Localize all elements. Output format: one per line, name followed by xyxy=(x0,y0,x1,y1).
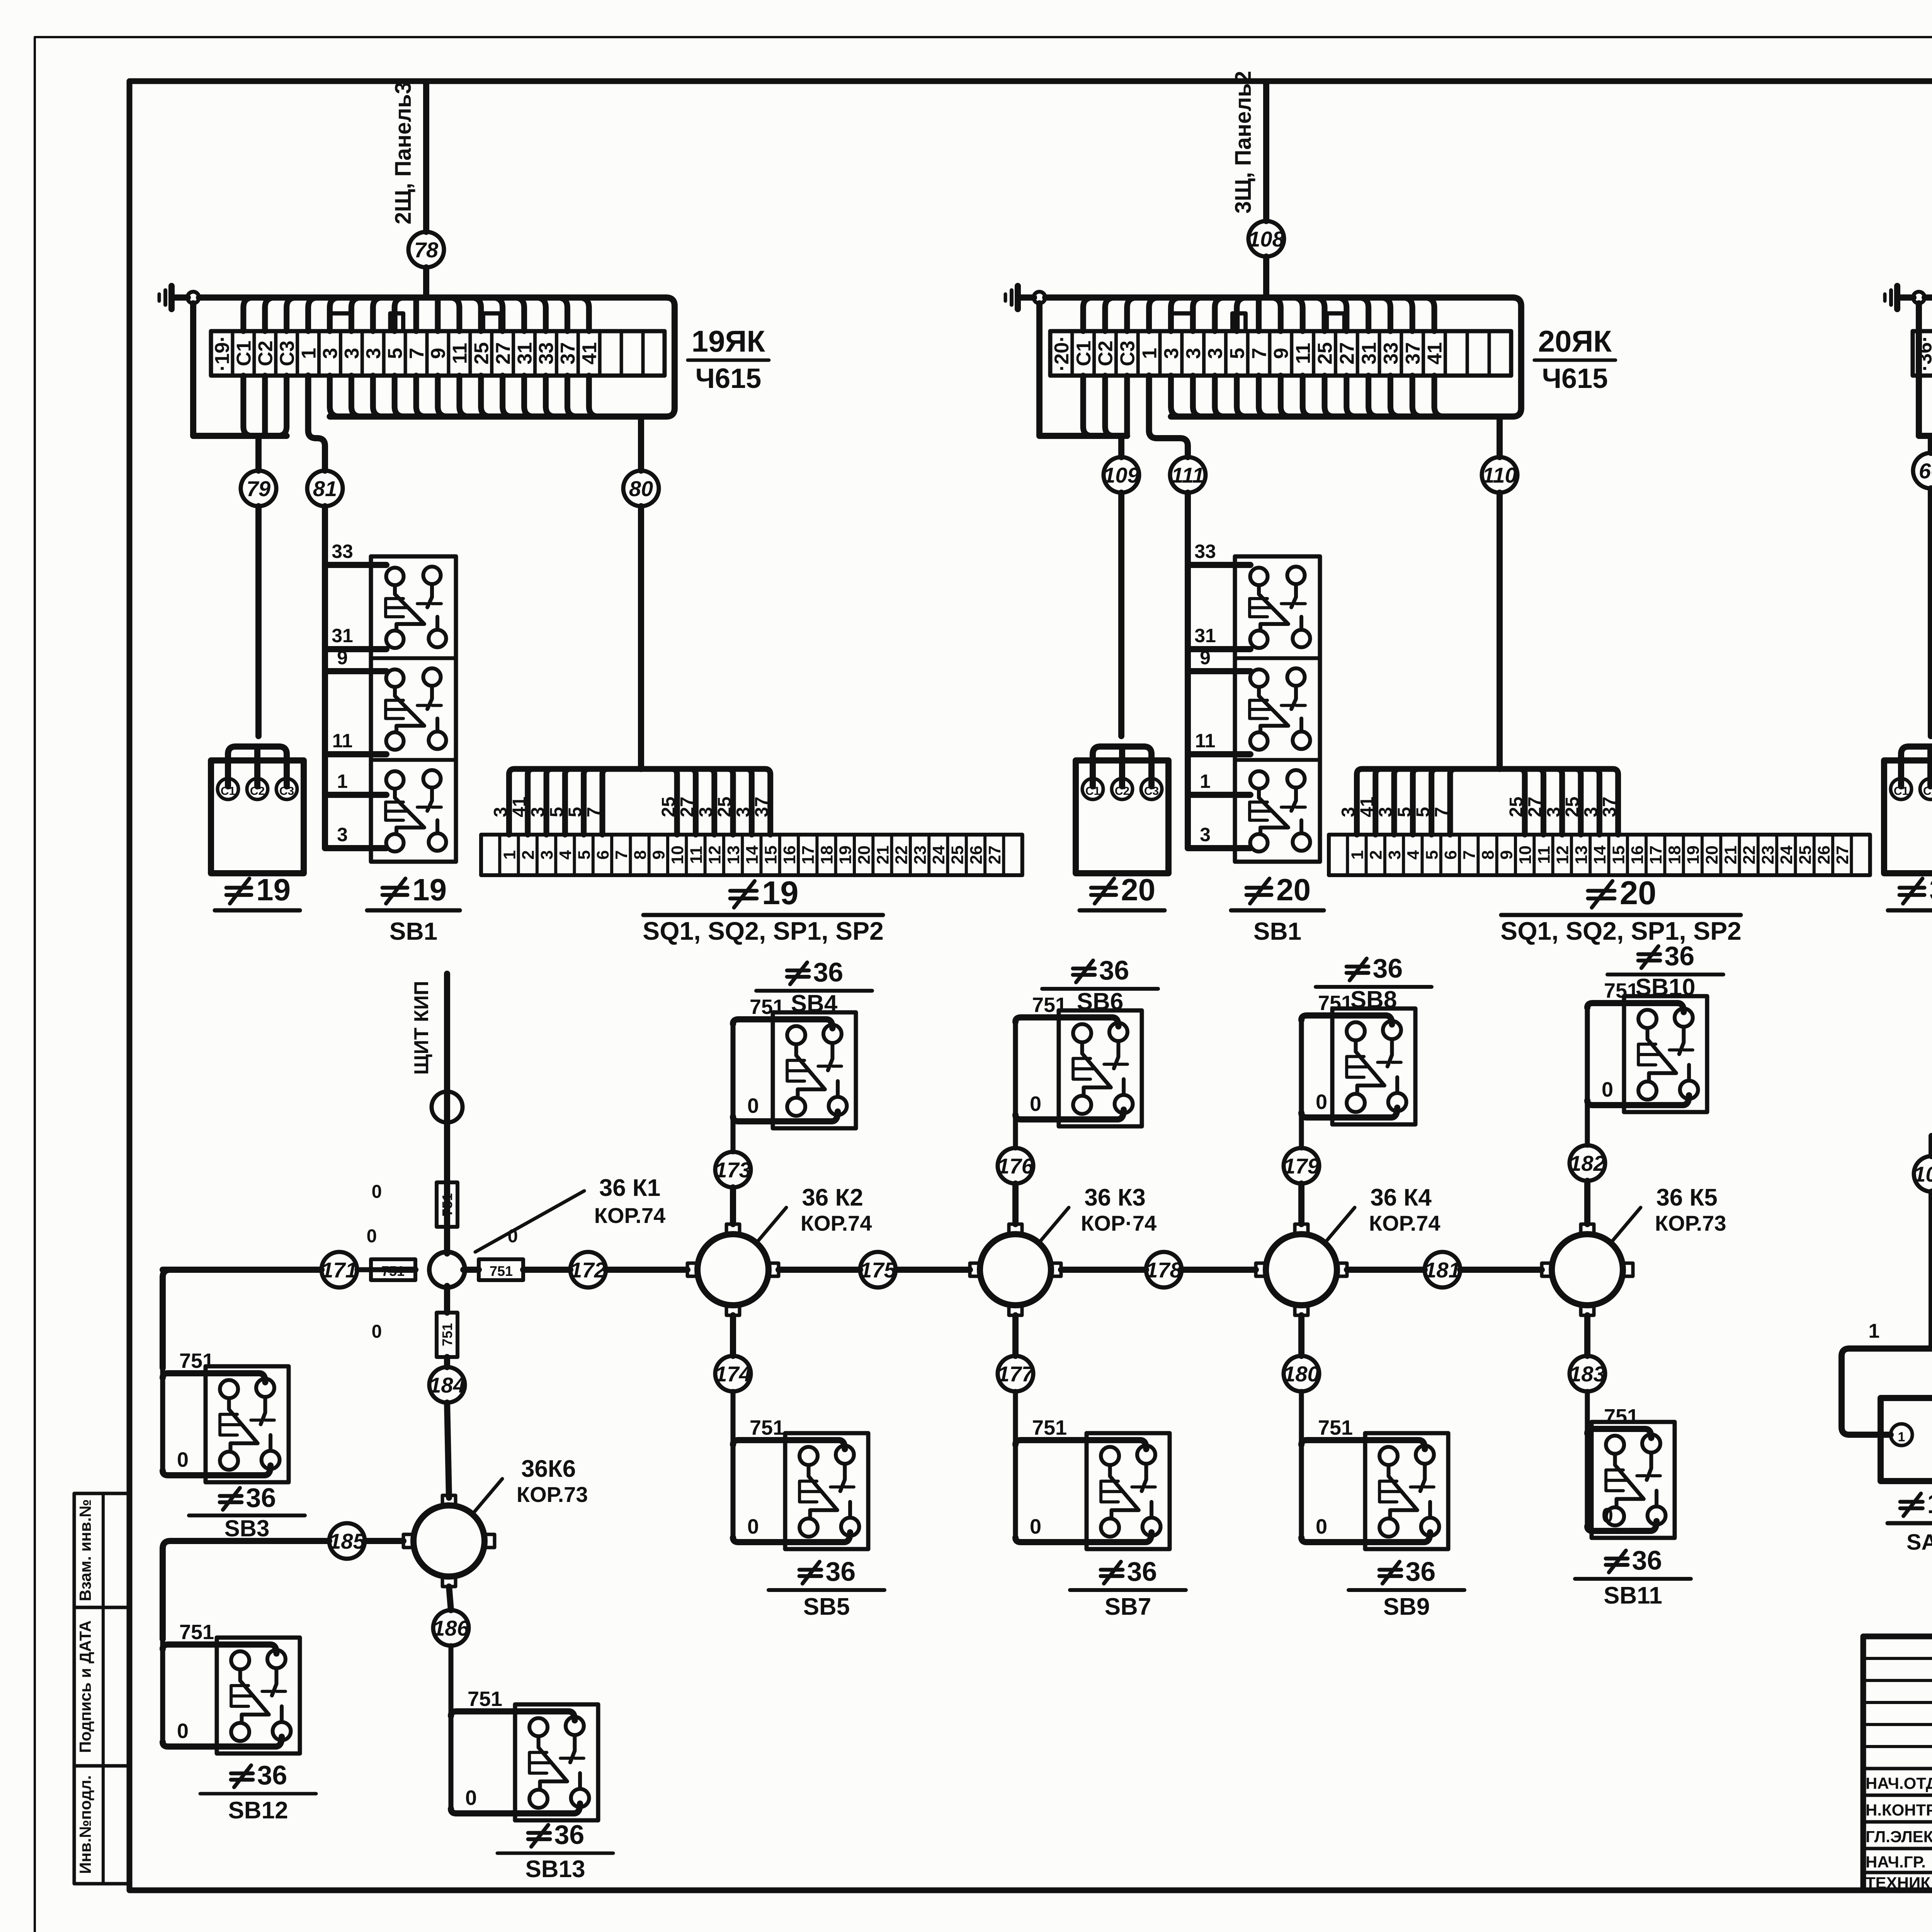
svg-text:20: 20 xyxy=(1121,872,1155,907)
svg-text:181: 181 xyxy=(1424,1258,1460,1282)
svg-text:3: 3 xyxy=(1376,807,1396,817)
svg-text:36: 36 xyxy=(1127,1556,1157,1587)
svg-text:751: 751 xyxy=(490,1263,513,1279)
svg-text:18: 18 xyxy=(1665,845,1684,864)
svg-text:0: 0 xyxy=(1602,1078,1613,1101)
svg-text:179: 179 xyxy=(1283,1154,1319,1178)
svg-text:3: 3 xyxy=(733,807,753,817)
svg-text:36: 36 xyxy=(1929,872,1932,907)
svg-text:SB8: SB8 xyxy=(1350,986,1397,1013)
svg-text:176: 176 xyxy=(997,1154,1034,1178)
svg-text:25: 25 xyxy=(948,845,967,864)
svg-text:SB5: SB5 xyxy=(803,1594,850,1620)
svg-text:2: 2 xyxy=(519,850,538,859)
svg-text:36: 36 xyxy=(1632,1545,1662,1575)
svg-text:37: 37 xyxy=(1402,342,1424,365)
svg-text:25: 25 xyxy=(470,342,493,365)
svg-text:3: 3 xyxy=(537,850,556,859)
svg-text:177: 177 xyxy=(997,1362,1034,1386)
svg-text:3: 3 xyxy=(337,824,348,845)
svg-text:0: 0 xyxy=(1316,1515,1327,1538)
svg-text:SB7: SB7 xyxy=(1105,1594,1151,1620)
svg-text:27: 27 xyxy=(1336,342,1359,365)
svg-text:751: 751 xyxy=(179,1349,214,1372)
svg-text:41: 41 xyxy=(1424,342,1446,365)
svg-text:751: 751 xyxy=(750,995,784,1019)
svg-text:0: 0 xyxy=(367,1226,377,1247)
svg-text:11: 11 xyxy=(1195,730,1216,752)
svg-text:9: 9 xyxy=(337,647,348,668)
svg-text:7: 7 xyxy=(584,807,604,817)
svg-text:3: 3 xyxy=(1160,348,1183,359)
svg-text:79: 79 xyxy=(247,476,270,501)
svg-text:26: 26 xyxy=(1815,845,1833,864)
svg-text:33: 33 xyxy=(535,342,558,365)
svg-text:3: 3 xyxy=(1385,850,1404,859)
svg-text:0: 0 xyxy=(1030,1092,1041,1116)
svg-text:3Щ, Панель2: 3Щ, Панель2 xyxy=(1231,71,1256,214)
svg-text:1: 1 xyxy=(1869,1320,1880,1342)
svg-text:36: 36 xyxy=(825,1556,855,1587)
svg-text:12: 12 xyxy=(1553,845,1572,864)
svg-text:24: 24 xyxy=(1777,845,1796,864)
svg-text:751: 751 xyxy=(1318,1416,1353,1439)
svg-text:21: 21 xyxy=(1721,845,1740,864)
svg-text:41: 41 xyxy=(578,342,601,365)
svg-text:ЩИТ КИП: ЩИТ КИП xyxy=(410,981,433,1075)
svg-text:9: 9 xyxy=(1497,850,1516,859)
svg-text:3: 3 xyxy=(341,348,363,359)
svg-text:66: 66 xyxy=(1919,459,1932,483)
svg-text:9: 9 xyxy=(650,850,668,859)
svg-text:11: 11 xyxy=(449,343,471,364)
svg-text:751: 751 xyxy=(1604,979,1639,1002)
svg-text:7: 7 xyxy=(1432,807,1452,817)
svg-text:5: 5 xyxy=(1394,807,1415,817)
svg-text:8: 8 xyxy=(631,850,650,859)
svg-text:9: 9 xyxy=(1270,348,1293,359)
svg-text:21: 21 xyxy=(873,845,892,864)
svg-text:183: 183 xyxy=(1569,1362,1605,1386)
svg-text:4: 4 xyxy=(556,850,575,860)
svg-text:0: 0 xyxy=(177,1719,189,1743)
svg-text:17: 17 xyxy=(799,845,818,864)
svg-text:37: 37 xyxy=(752,797,772,817)
svg-text:0: 0 xyxy=(372,1321,382,1342)
svg-text:751: 751 xyxy=(1032,993,1067,1017)
svg-text:36: 36 xyxy=(1664,941,1694,971)
svg-text:SB3: SB3 xyxy=(224,1515,270,1541)
svg-text:31: 31 xyxy=(514,342,536,365)
svg-text:31: 31 xyxy=(332,625,353,646)
svg-text:5: 5 xyxy=(1226,348,1249,359)
svg-text:Ч615: Ч615 xyxy=(1542,363,1608,394)
svg-text:15: 15 xyxy=(761,845,780,864)
svg-text:36 К4: 36 К4 xyxy=(1370,1184,1432,1211)
svg-text:SQ1, SQ2, SP1, SP2: SQ1, SQ2, SP1, SP2 xyxy=(643,917,884,945)
svg-text:2: 2 xyxy=(1367,850,1386,859)
svg-text:751: 751 xyxy=(1318,992,1353,1015)
svg-text:172: 172 xyxy=(570,1258,606,1282)
svg-text:31: 31 xyxy=(1194,625,1216,646)
svg-text:3: 3 xyxy=(1204,348,1227,359)
svg-text:23: 23 xyxy=(1759,845,1777,864)
svg-text:4: 4 xyxy=(1404,850,1423,860)
svg-text:180: 180 xyxy=(1283,1362,1319,1386)
svg-text:3: 3 xyxy=(1338,807,1359,817)
svg-text:14: 14 xyxy=(743,845,762,864)
svg-text:9: 9 xyxy=(427,348,450,359)
svg-text:5: 5 xyxy=(565,807,586,817)
svg-text:3: 3 xyxy=(362,348,385,359)
svg-text:25: 25 xyxy=(1562,797,1583,817)
svg-text:3: 3 xyxy=(1182,348,1205,359)
svg-text:36: 36 xyxy=(1099,955,1129,985)
svg-text:31: 31 xyxy=(1358,342,1380,365)
svg-text:Ч615: Ч615 xyxy=(696,363,762,394)
svg-text:15: 15 xyxy=(1609,845,1628,864)
svg-text:SB1: SB1 xyxy=(1253,917,1302,945)
svg-text:186: 186 xyxy=(433,1616,469,1640)
svg-text:36 К3: 36 К3 xyxy=(1084,1184,1146,1211)
svg-text:0: 0 xyxy=(372,1182,382,1202)
svg-text:3: 3 xyxy=(1581,807,1601,817)
svg-text:18: 18 xyxy=(817,845,836,864)
svg-text:20: 20 xyxy=(855,845,874,864)
svg-text:33: 33 xyxy=(1380,342,1402,365)
svg-text:751: 751 xyxy=(179,1621,214,1644)
svg-text:36: 36 xyxy=(813,957,843,987)
svg-text:5: 5 xyxy=(1413,807,1434,817)
svg-text:КОР.74: КОР.74 xyxy=(801,1211,872,1235)
svg-text:SB4: SB4 xyxy=(791,990,838,1017)
svg-text:36К6: 36К6 xyxy=(521,1456,576,1482)
svg-text:Подпись и ДАТА: Подпись и ДАТА xyxy=(76,1621,94,1753)
svg-text:С2: С2 xyxy=(254,340,277,366)
svg-text:25: 25 xyxy=(658,797,679,817)
svg-text:36 К5: 36 К5 xyxy=(1656,1184,1718,1211)
svg-text:751: 751 xyxy=(750,1416,784,1439)
svg-text:3: 3 xyxy=(490,807,511,817)
svg-text:3: 3 xyxy=(1200,824,1211,845)
svg-text:751: 751 xyxy=(1032,1416,1067,1439)
svg-text:19: 19 xyxy=(256,872,291,907)
svg-text:20ЯК: 20ЯК xyxy=(1538,324,1612,358)
svg-text:7: 7 xyxy=(1248,348,1270,359)
svg-text:SB12: SB12 xyxy=(228,1797,288,1824)
svg-text:27: 27 xyxy=(492,342,514,365)
svg-text:12: 12 xyxy=(706,845,724,864)
svg-text:11: 11 xyxy=(1292,343,1315,364)
svg-text:36: 36 xyxy=(257,1760,287,1790)
svg-text:SB6: SB6 xyxy=(1077,988,1124,1015)
svg-text:109: 109 xyxy=(1103,463,1139,487)
svg-text:20: 20 xyxy=(1620,875,1656,912)
svg-text:108: 108 xyxy=(1248,227,1284,251)
svg-text:6: 6 xyxy=(594,850,612,859)
svg-text:27: 27 xyxy=(985,845,1004,864)
svg-text:1: 1 xyxy=(337,770,348,792)
svg-text:5: 5 xyxy=(546,807,567,817)
svg-text:36: 36 xyxy=(1405,1556,1435,1587)
svg-text:33: 33 xyxy=(1194,541,1216,562)
svg-text:С1: С1 xyxy=(1073,340,1095,366)
svg-text:41: 41 xyxy=(509,797,530,817)
svg-text:37: 37 xyxy=(1600,797,1620,817)
svg-text:0: 0 xyxy=(1030,1515,1041,1538)
svg-text:17: 17 xyxy=(1646,845,1665,864)
svg-text:0: 0 xyxy=(465,1786,477,1810)
svg-text:С1: С1 xyxy=(1894,785,1908,798)
svg-text:С2: С2 xyxy=(1095,340,1117,366)
svg-text:19: 19 xyxy=(836,845,855,864)
svg-text:КОР.73: КОР.73 xyxy=(517,1482,588,1507)
svg-text:27: 27 xyxy=(1525,797,1545,817)
svg-text:SB9: SB9 xyxy=(1383,1594,1430,1620)
svg-text:80: 80 xyxy=(629,476,653,501)
svg-text:6: 6 xyxy=(1441,850,1460,859)
svg-text:2Щ, Панель3: 2Щ, Панель3 xyxy=(391,82,416,224)
svg-text:Инв.№подл.: Инв.№подл. xyxy=(76,1775,94,1874)
svg-text:·19·: ·19· xyxy=(211,335,234,371)
svg-text:25: 25 xyxy=(1796,845,1815,864)
svg-text:751: 751 xyxy=(1604,1405,1639,1428)
svg-text:5: 5 xyxy=(1422,850,1441,859)
svg-text:20: 20 xyxy=(1702,845,1721,864)
svg-text:33: 33 xyxy=(332,541,353,562)
svg-text:0: 0 xyxy=(747,1094,759,1117)
svg-text:0: 0 xyxy=(747,1515,759,1538)
svg-text:1: 1 xyxy=(1898,1430,1905,1444)
svg-text:36 К2: 36 К2 xyxy=(802,1184,863,1211)
svg-text:171: 171 xyxy=(321,1258,357,1282)
svg-text:173: 173 xyxy=(715,1158,751,1182)
svg-text:23: 23 xyxy=(911,845,930,864)
svg-text:106: 106 xyxy=(1913,1162,1932,1186)
svg-text:37: 37 xyxy=(557,342,579,365)
svg-text:С3: С3 xyxy=(279,785,294,798)
svg-text:SB10: SB10 xyxy=(1635,974,1695,1001)
svg-text:7: 7 xyxy=(406,348,428,359)
svg-text:5: 5 xyxy=(575,850,594,859)
svg-text:81: 81 xyxy=(313,476,337,501)
svg-text:SB13: SB13 xyxy=(525,1856,585,1883)
svg-text:Н.КОНТР.: Н.КОНТР. xyxy=(1866,1801,1932,1819)
svg-text:С1: С1 xyxy=(233,340,255,366)
svg-text:36 К1: 36 К1 xyxy=(599,1175,661,1201)
svg-text:25: 25 xyxy=(714,797,735,817)
svg-text:·20·: ·20· xyxy=(1051,335,1073,371)
svg-text:КОР.73: КОР.73 xyxy=(1655,1211,1726,1235)
svg-text:26: 26 xyxy=(967,845,986,864)
svg-text:КОР.74: КОР.74 xyxy=(594,1203,666,1228)
svg-text:11: 11 xyxy=(332,730,353,752)
svg-text:8: 8 xyxy=(1478,850,1497,859)
svg-text:13: 13 xyxy=(724,845,743,864)
svg-text:174: 174 xyxy=(715,1362,751,1386)
svg-text:КОР·74: КОР·74 xyxy=(1081,1211,1156,1235)
svg-text:751: 751 xyxy=(439,1323,455,1346)
svg-text:С1: С1 xyxy=(221,785,235,798)
svg-text:20: 20 xyxy=(1276,872,1311,907)
svg-text:0: 0 xyxy=(1316,1090,1327,1114)
svg-text:184: 184 xyxy=(429,1373,465,1397)
svg-text:SA1: SA1 xyxy=(1906,1530,1932,1554)
svg-text:Взам. инв.№: Взам. инв.№ xyxy=(76,1499,94,1601)
svg-text:1: 1 xyxy=(1348,850,1367,859)
svg-text:3: 3 xyxy=(528,807,548,817)
svg-text:1: 1 xyxy=(1138,348,1161,359)
svg-text:7: 7 xyxy=(1460,850,1479,859)
svg-text:751: 751 xyxy=(468,1687,502,1711)
svg-text:7: 7 xyxy=(612,850,631,859)
svg-text:0: 0 xyxy=(177,1448,189,1471)
svg-text:5: 5 xyxy=(384,348,406,359)
svg-text:16: 16 xyxy=(780,845,799,864)
svg-text:24: 24 xyxy=(929,845,948,864)
svg-text:SB1: SB1 xyxy=(389,917,438,945)
svg-text:1: 1 xyxy=(298,348,320,359)
svg-text:19: 19 xyxy=(762,875,799,912)
svg-text:С3: С3 xyxy=(276,340,298,366)
svg-text:17: 17 xyxy=(1927,1488,1932,1519)
svg-text:36: 36 xyxy=(1372,953,1403,983)
svg-text:19: 19 xyxy=(1684,845,1703,864)
svg-text:19ЯК: 19ЯК xyxy=(692,324,765,358)
svg-text:41: 41 xyxy=(1357,797,1378,817)
svg-text:С1: С1 xyxy=(1085,785,1100,798)
svg-text:178: 178 xyxy=(1146,1258,1182,1282)
svg-text:25: 25 xyxy=(1506,797,1527,817)
svg-text:27: 27 xyxy=(677,797,697,817)
svg-text:1: 1 xyxy=(500,850,519,859)
svg-text:SQ1, SQ2, SP1, SP2: SQ1, SQ2, SP1, SP2 xyxy=(1500,917,1742,945)
svg-text:КОР.74: КОР.74 xyxy=(1369,1211,1440,1235)
svg-text:22: 22 xyxy=(1740,845,1759,864)
svg-text:36: 36 xyxy=(246,1483,276,1513)
svg-text:185: 185 xyxy=(329,1529,365,1553)
svg-text:ТЕХНИК: ТЕХНИК xyxy=(1866,1874,1930,1892)
svg-text:3: 3 xyxy=(696,807,716,817)
svg-text:10: 10 xyxy=(1516,845,1535,864)
svg-text:13: 13 xyxy=(1572,845,1591,864)
svg-text:110: 110 xyxy=(1482,463,1517,487)
svg-text:3: 3 xyxy=(319,348,342,359)
svg-text:19: 19 xyxy=(412,872,447,907)
svg-text:С2: С2 xyxy=(1923,785,1932,798)
svg-text:11: 11 xyxy=(687,846,706,864)
svg-text:ГЛ.ЭЛЕКТР.: ГЛ.ЭЛЕКТР. xyxy=(1866,1828,1932,1846)
svg-text:НАЧ.ОТД.: НАЧ.ОТД. xyxy=(1866,1774,1932,1793)
svg-text:9: 9 xyxy=(1200,647,1211,668)
svg-text:3: 3 xyxy=(1544,807,1564,817)
svg-text:25: 25 xyxy=(1314,342,1337,365)
svg-text:182: 182 xyxy=(1569,1151,1605,1175)
svg-text:16: 16 xyxy=(1628,845,1647,864)
svg-text:27: 27 xyxy=(1833,845,1852,864)
svg-text:SB11: SB11 xyxy=(1604,1582,1662,1609)
svg-text:111: 111 xyxy=(1171,463,1204,487)
svg-text:1: 1 xyxy=(1200,770,1211,792)
svg-text:С3: С3 xyxy=(1144,785,1159,798)
svg-text:11: 11 xyxy=(1534,846,1553,864)
svg-text:С2: С2 xyxy=(250,785,265,798)
svg-text:22: 22 xyxy=(892,845,911,864)
svg-text:НАЧ.ГР.: НАЧ.ГР. xyxy=(1866,1853,1926,1871)
svg-text:С2: С2 xyxy=(1115,785,1129,798)
svg-text:10: 10 xyxy=(668,845,687,864)
svg-text:14: 14 xyxy=(1590,845,1609,864)
svg-text:175: 175 xyxy=(860,1258,896,1282)
svg-text:36: 36 xyxy=(554,1820,584,1850)
svg-text:78: 78 xyxy=(414,238,439,262)
svg-text:С3: С3 xyxy=(1117,340,1139,366)
